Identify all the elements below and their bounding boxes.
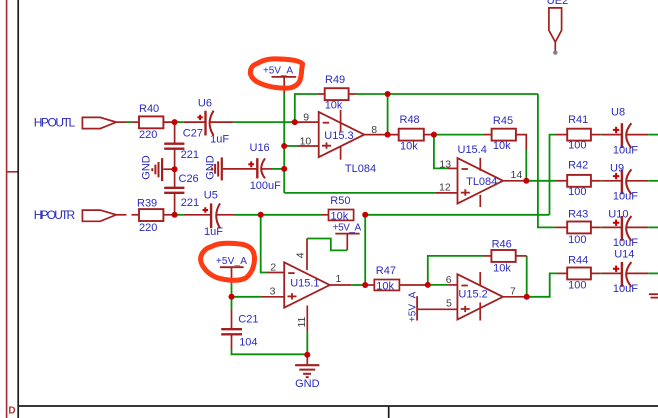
wire riser up to R41 — [550, 135, 557, 215]
node pin14 junction — [523, 178, 529, 184]
node U16 junction — [281, 166, 287, 172]
svg-text:100: 100 — [568, 234, 586, 246]
wire C21 stem top — [231, 309, 233, 329]
wire R49 out to long vertical — [356, 93, 538, 95]
resistor R40 — [139, 103, 163, 141]
wire pin7 node to R44 riser — [527, 273, 558, 296]
resistor R48 — [399, 114, 424, 152]
resistor R44 — [567, 255, 591, 292]
wire pin13 stub — [448, 167, 458, 169]
svg-text:6: 6 — [446, 274, 452, 286]
wire U5 out to R50 — [235, 214, 322, 216]
wire +5V_A to pin3 node — [231, 284, 233, 297]
svg-text:R48: R48 — [400, 114, 420, 126]
wire R41 left lead — [556, 134, 567, 136]
svg-text:100uF: 100uF — [250, 180, 281, 192]
capacitor U8 10uF — [622, 123, 632, 148]
capacitor C26 221 — [164, 173, 199, 209]
ground GND2 (U16) — [204, 155, 222, 180]
wire R45 right lead corner — [516, 135, 526, 150]
wire R43 left lead — [556, 226, 568, 228]
svg-text:10uF: 10uF — [613, 237, 638, 249]
svg-text:U15.2: U15.2 — [458, 288, 487, 300]
RED PIN/LEAD SEGMENTS — [116, 94, 648, 365]
wire U8 out lead — [626, 134, 648, 136]
svg-text:U5: U5 — [204, 190, 218, 202]
capacitor U6 1uF — [206, 111, 214, 136]
svg-text:R42: R42 — [568, 159, 588, 171]
resistor R46 — [491, 238, 515, 274]
wire R46 right lead — [516, 255, 527, 257]
svg-text:221: 221 — [181, 197, 199, 209]
svg-text:HPOUTL: HPOUTL — [34, 115, 76, 129]
node R50 left junction — [258, 212, 264, 218]
wire U6 out to pin9 node — [233, 121, 295, 123]
svg-text:C21: C21 — [238, 313, 258, 325]
svg-text:1uF: 1uF — [204, 226, 223, 238]
wire R41 to U8 — [591, 134, 601, 136]
node pin3 junction — [229, 294, 235, 300]
wire R40 left lead — [132, 121, 139, 123]
svg-text:10k: 10k — [331, 210, 349, 222]
wire pin4 supply zigzag — [307, 239, 347, 251]
wire R43 to U10 — [591, 226, 601, 228]
wire R45 out down to pin14 node — [525, 150, 527, 181]
node R48 right junction — [431, 132, 437, 138]
svg-text:TL084: TL084 — [466, 176, 497, 188]
node pin1 junction — [362, 282, 368, 288]
svg-text:7: 7 — [510, 286, 516, 298]
wire +5V_A bias rail — [283, 94, 285, 193]
wire pin1 output — [330, 284, 352, 286]
node R47 right junction — [425, 282, 431, 288]
power +5V_A pin4 (U15.1 supply) — [333, 222, 362, 250]
wire U9 out lead — [626, 180, 648, 182]
wire R49 left lead — [317, 93, 325, 95]
wire pin7 output — [503, 296, 527, 298]
wire R50 left lead — [322, 214, 329, 216]
wire GND1 stub — [163, 168, 174, 170]
wire node A to C27/U6 — [177, 121, 184, 123]
wire R45 left lead — [484, 134, 492, 136]
wire pin12 stub — [435, 192, 457, 194]
node pin8 junction — [385, 132, 391, 138]
power +5V_A pin5 (rotated) — [408, 291, 419, 322]
svg-text:5: 5 — [446, 297, 452, 309]
partial component at right edge — [649, 294, 658, 297]
svg-text:2: 2 — [270, 262, 276, 274]
capacitor C27 221 — [164, 127, 203, 161]
node R49 top junction — [385, 91, 391, 97]
wire specks — [601, 134, 603, 136]
wire C21 stem bottom — [231, 334, 233, 349]
svg-text:13: 13 — [439, 159, 451, 171]
wire R48 node down to pin13 — [434, 135, 448, 169]
node B junction — [172, 212, 178, 218]
wire R47 node up to R46 — [428, 256, 483, 285]
wire U6 arc out — [210, 121, 233, 123]
wire R42 to U9 — [591, 180, 601, 182]
svg-text:R40: R40 — [139, 103, 159, 115]
svg-text:10k: 10k — [493, 262, 511, 274]
resistor R41 — [567, 114, 591, 152]
svg-text:9: 9 — [303, 111, 309, 123]
svg-text:100: 100 — [568, 140, 586, 152]
svg-text:8: 8 — [371, 124, 377, 136]
hand-drawn annotation circle around +5V_A mid — [201, 243, 255, 280]
wire R49 right lead — [349, 93, 356, 95]
svg-text:R41: R41 — [568, 114, 588, 126]
svg-text:+5V_A: +5V_A — [216, 256, 247, 267]
ground GND1 (C27/C26 node) — [140, 155, 162, 181]
wire R50 out to R41 riser — [365, 214, 549, 216]
power +5V_A top — [263, 66, 296, 94]
svg-text:221: 221 — [181, 149, 199, 161]
capacitor U10 10uF — [622, 216, 632, 241]
wire GND3 stem — [306, 355, 308, 366]
wire GND2 stub to U16 — [223, 168, 257, 170]
wire bias rail to pin12 — [284, 192, 435, 194]
svg-text:U10: U10 — [608, 209, 628, 221]
svg-text:1: 1 — [336, 273, 342, 285]
wire pin14 node to R42 — [526, 180, 556, 182]
resistor R43 — [567, 208, 591, 246]
wire R42 left lead — [556, 180, 567, 182]
svg-text:R49: R49 — [325, 74, 345, 86]
wire R50 left node down to pin2 — [261, 215, 267, 273]
svg-text:U6: U6 — [198, 97, 212, 109]
svg-text:R43: R43 — [568, 208, 588, 220]
wire pin8 output — [364, 134, 399, 136]
wire U5 arc out — [217, 214, 235, 216]
svg-text:10k: 10k — [376, 280, 394, 292]
wire C27 stem — [174, 122, 176, 144]
resistor R50 with boxed value — [329, 195, 354, 222]
wire pin11 to GND node — [306, 331, 308, 355]
svg-text:U15.1: U15.1 — [290, 278, 319, 290]
wire pin5 stub from +5V_A — [417, 308, 457, 310]
wire U16 arc out — [261, 168, 272, 170]
port UE2 — [547, 0, 568, 55]
svg-text:220: 220 — [139, 222, 157, 234]
svg-text:R50: R50 — [330, 195, 350, 207]
svg-text:U15.4: U15.4 — [458, 144, 487, 156]
svg-text:U15.3: U15.3 — [324, 130, 353, 142]
capacitor U5 1uF — [211, 203, 220, 228]
resistor R42 — [567, 159, 591, 198]
wire R47 left lead — [365, 284, 374, 286]
svg-text:10k: 10k — [400, 140, 418, 152]
wire node B to U5 bar — [184, 214, 211, 216]
capacitor U14 10uF — [622, 262, 632, 287]
op-amp U15.3 — [300, 110, 378, 175]
node pin9 junction — [292, 119, 298, 125]
svg-text:10k: 10k — [325, 100, 343, 112]
wire U14 out lead — [626, 272, 648, 274]
wire R48 out to R45 — [434, 134, 484, 136]
wire pin10 stub — [298, 145, 319, 147]
wire R44 to U14 — [591, 272, 601, 274]
wire R49 left drop to pin9 node — [295, 94, 317, 122]
wire pin2 stub — [267, 272, 284, 274]
capacitor C21 104 — [221, 313, 258, 348]
wire C27-C26 link — [174, 149, 176, 188]
wire U8 out — [648, 134, 658, 136]
svg-text:10uF: 10uF — [613, 283, 638, 295]
wire node B to U5 — [177, 214, 184, 216]
svg-text:R46: R46 — [492, 238, 512, 250]
resistor R45 — [492, 115, 516, 152]
svg-text:TL084: TL084 — [345, 163, 376, 175]
wire U10 out lead — [626, 226, 648, 228]
sheet frame (decorative) — [7, 0, 19, 418]
wire C26 to node B — [174, 193, 176, 215]
wire R44 left lead — [558, 272, 567, 274]
port HPOUTR — [34, 208, 117, 222]
capacitor U16 100uF — [257, 158, 265, 178]
wire pin3 node to pin3 — [232, 296, 263, 298]
svg-text:220: 220 — [139, 129, 157, 141]
svg-text:C26: C26 — [179, 173, 199, 185]
svg-text:11: 11 — [296, 316, 308, 327]
wire R46 out down to pin7 node — [526, 256, 528, 297]
wire U14 out — [648, 272, 658, 274]
svg-text:R45: R45 — [493, 115, 513, 127]
svg-text:10uF: 10uF — [613, 191, 638, 203]
wire pin1 node stub — [428, 284, 448, 286]
node C27/C26/GND junction — [172, 166, 178, 172]
node A junction — [172, 119, 178, 125]
op-amp U15.4 — [439, 144, 522, 207]
svg-text:GND: GND — [140, 155, 152, 180]
port HPOUTL — [34, 115, 117, 129]
wire pin9 stub — [295, 121, 319, 123]
svg-text:R39: R39 — [137, 198, 157, 210]
wire R48 right lead — [424, 134, 434, 136]
svg-text:100: 100 — [568, 186, 586, 198]
node pin7 junction — [524, 294, 530, 300]
resistor R49 — [325, 74, 349, 112]
wire R46 left lead — [483, 255, 491, 257]
wire long vertical U15.3 out to R43 — [538, 94, 556, 227]
wire R50 right node down to pin1 node — [364, 215, 366, 285]
svg-text:+5V_A: +5V_A — [263, 66, 293, 77]
wire U9 out — [648, 180, 658, 182]
svg-text:3: 3 — [270, 286, 276, 298]
node R50 right junction — [362, 212, 368, 218]
wire pin4 stub — [306, 239, 308, 271]
op-amp U15.1 — [270, 252, 342, 327]
svg-text:C27: C27 — [183, 127, 203, 139]
svg-text:14: 14 — [511, 169, 523, 181]
svg-text:R47: R47 — [376, 265, 396, 277]
resistor R47 with boxed value — [374, 265, 399, 292]
svg-text:1uF: 1uF — [210, 133, 229, 145]
op-amp U15.2 — [446, 272, 516, 321]
wire U16 to bias rail — [272, 168, 284, 170]
svg-text:10k: 10k — [493, 140, 511, 152]
wire R39 left lead — [132, 214, 139, 216]
wire pin14 output — [503, 180, 526, 182]
svg-text:12: 12 — [439, 181, 451, 193]
node pin10 junction — [281, 143, 287, 149]
svg-text:UE2: UE2 — [547, 0, 568, 7]
svg-text:U9: U9 — [610, 163, 624, 175]
wire node A to U6 bar — [184, 121, 206, 123]
node GND bottom junction — [304, 352, 310, 358]
wire bias rail to pin10 — [284, 145, 298, 147]
svg-text:D: D — [8, 405, 15, 416]
wire C21 top — [231, 297, 233, 309]
wire pin11 stub — [306, 306, 308, 331]
wire R39 right lead to node B — [161, 214, 177, 216]
svg-text:4: 4 — [295, 252, 307, 258]
svg-text:U14: U14 — [614, 249, 634, 261]
svg-text:10uF: 10uF — [613, 144, 638, 156]
svg-text:R44: R44 — [568, 255, 588, 267]
svg-text:104: 104 — [239, 336, 257, 348]
wire R49 node down to pin8 — [387, 94, 389, 135]
svg-text:+5V_A: +5V_A — [333, 222, 362, 233]
hand-drawn annotation circle around +5V_A top — [250, 59, 302, 88]
wire R47 right lead — [399, 284, 428, 286]
wire port HPOUTR lead — [116, 214, 126, 216]
capacitor U9 10uF — [622, 169, 632, 194]
wire apex U15.1 to pin1 node — [352, 284, 365, 286]
power +5V_A mid (U15.1) — [216, 256, 247, 284]
wire U10 out — [648, 226, 658, 228]
wire pin6 stub — [448, 284, 457, 286]
svg-text:HPOUTR: HPOUTR — [34, 208, 76, 222]
ground GND3 (bottom) — [295, 365, 320, 390]
svg-text:10: 10 — [300, 135, 312, 147]
wire HPOUTL to R40 — [127, 121, 132, 123]
wire pin3 stub — [262, 296, 284, 298]
svg-text:100: 100 — [568, 279, 586, 291]
svg-text:U16: U16 — [250, 142, 270, 154]
wire R40 right lead to node A — [161, 121, 177, 123]
svg-text:GND: GND — [295, 378, 320, 390]
wire C21 bottom to GND node — [232, 349, 308, 354]
wire port HPOUTL lead — [116, 121, 126, 123]
resistor R39 — [137, 198, 163, 234]
svg-text:U8: U8 — [611, 106, 625, 118]
